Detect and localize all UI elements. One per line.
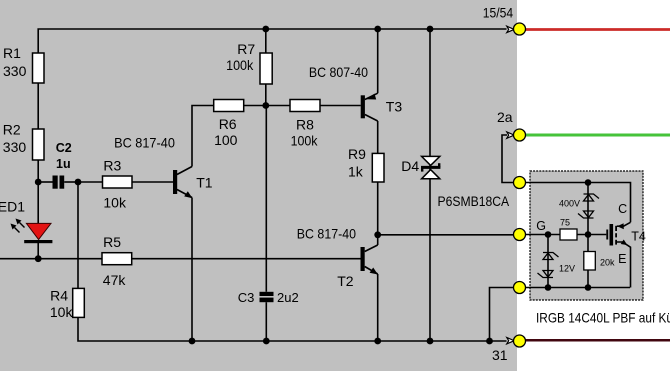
- schematic gray canvas: [0, 0, 517, 371]
- svg-text:C2: C2: [56, 141, 72, 155]
- wire R3 to T1 base: [132, 181, 173, 183]
- wire zener 12V column: [547, 235, 549, 288]
- transistor T3: [361, 93, 378, 121]
- svg-text:R5: R5: [103, 234, 121, 250]
- node top rail R7: [262, 26, 269, 33]
- wire T1 emitter down: [191, 198, 193, 342]
- svg-text:400V: 400V: [559, 199, 580, 209]
- svg-text:R9: R9: [348, 146, 366, 162]
- svg-text:75: 75: [560, 218, 570, 228]
- node bottom rail D4: [427, 338, 434, 345]
- resistor 20k: [584, 252, 596, 271]
- svg-text:IRGB 14C40L PBF auf Kü: IRGB 14C40L PBF auf Kü: [536, 309, 670, 325]
- wire node to C2 left plate: [38, 181, 52, 183]
- svg-text:R6: R6: [219, 116, 237, 132]
- pin arrow 15/54: [507, 26, 514, 32]
- svg-text:20k: 20k: [600, 258, 615, 268]
- svg-text:P6SMB18CA: P6SMB18CA: [438, 193, 510, 209]
- connector gate G: [514, 229, 526, 241]
- capacitor C2: [53, 176, 65, 189]
- svg-text:330: 330: [3, 63, 27, 79]
- resistor R3: [103, 176, 133, 188]
- wire 2a loop to module top connector: [502, 135, 514, 183]
- wire R7 bottom: [265, 84, 267, 106]
- node R9 T2: [374, 231, 381, 238]
- IGBT T4: [606, 223, 627, 245]
- wire module bottom rail: [526, 287, 631, 289]
- svg-text:330: 330: [3, 139, 27, 155]
- wire D4 column: [429, 29, 431, 341]
- svg-text:T3: T3: [386, 99, 403, 115]
- wire 75 resistor to gate: [577, 234, 606, 236]
- svg-text:2u2: 2u2: [277, 290, 299, 305]
- wire zener 400V column: [587, 183, 589, 235]
- wire R9 to node: [377, 182, 379, 235]
- svg-text:47k: 47k: [103, 272, 127, 288]
- svg-text:R7: R7: [237, 41, 255, 57]
- wire C3 to bottom rail: [265, 302, 267, 341]
- wire R8 to T3 base: [320, 105, 361, 107]
- pin arrow 31: [507, 338, 514, 344]
- node bottom rail C3: [263, 338, 270, 345]
- svg-text:T2: T2: [337, 273, 354, 289]
- zener diode 400V pair: [578, 194, 599, 218]
- svg-text:BC 817-40: BC 817-40: [297, 225, 356, 241]
- svg-text:BC 807-40: BC 807-40: [309, 64, 368, 80]
- svg-text:10k: 10k: [103, 195, 127, 211]
- wire red 15/54: [526, 28, 670, 31]
- module dashed box: [530, 171, 643, 300]
- connector module bottom: [514, 282, 526, 294]
- node bottom rail module: [486, 338, 493, 345]
- wire R6 to node: [244, 105, 266, 107]
- resistor R2: [33, 129, 45, 160]
- svg-text:2a: 2a: [497, 109, 513, 125]
- node top rail D4: [427, 26, 434, 33]
- wire LED1 cathode to node: [37, 243, 39, 259]
- wire module top rail: [526, 183, 631, 223]
- svg-text:100k: 100k: [291, 133, 319, 149]
- wire node to R3: [78, 181, 103, 183]
- svg-text:10k: 10k: [50, 304, 74, 320]
- svg-text:G: G: [536, 219, 546, 233]
- wire R7 top: [265, 29, 267, 53]
- svg-text:D4: D4: [401, 158, 419, 174]
- wire T4 collector link: [617, 222, 631, 226]
- node module bottom 20k: [585, 284, 592, 291]
- wire C2 right plate to node: [64, 181, 78, 183]
- svg-text:15/54: 15/54: [483, 5, 513, 21]
- LED LED1: [11, 219, 53, 244]
- wire T2 emitter down: [377, 274, 379, 341]
- resistor R8: [290, 100, 320, 112]
- wire node down to C3: [265, 106, 267, 292]
- wire R1-R2: [37, 83, 39, 129]
- node C2 right: [75, 179, 82, 186]
- wire R5 to T2 base: [132, 258, 361, 260]
- connector 2a: [514, 129, 526, 141]
- wire green 2a: [526, 134, 670, 137]
- resistor R7: [260, 53, 272, 84]
- node R6 R7 R8: [262, 102, 269, 109]
- wire R4 to bottom rail: [78, 317, 192, 341]
- svg-text:T4: T4: [631, 230, 646, 244]
- wire T3 collector to R9: [377, 121, 379, 153]
- svg-text:1u: 1u: [56, 157, 71, 171]
- wire top rail: [38, 29, 506, 53]
- wire R2 to node: [37, 160, 39, 182]
- transistor T1: [173, 167, 193, 199]
- wire module bottom connector to bottom rail: [490, 288, 514, 342]
- resistor R6: [214, 100, 244, 112]
- connector module top: [514, 177, 526, 189]
- wire bottom rail: [192, 340, 507, 342]
- node module gate: [585, 231, 592, 238]
- resistor R9: [372, 153, 384, 182]
- wire LED1 anode: [37, 182, 39, 224]
- svg-text:R1: R1: [3, 45, 21, 61]
- wire dark red 31: [526, 339, 670, 342]
- wire T3 emitter up: [377, 29, 379, 93]
- svg-text:C3: C3: [238, 290, 255, 305]
- wire module G input: [526, 234, 561, 236]
- node bottom rail T1: [189, 338, 196, 345]
- svg-text:R3: R3: [103, 157, 121, 173]
- node module bottom 12V: [545, 284, 552, 291]
- svg-text:LED1: LED1: [0, 199, 25, 215]
- zener diode 12V pair: [538, 253, 559, 278]
- node top rail T3: [374, 26, 381, 33]
- node LED1 cathode: [35, 255, 42, 262]
- connector 15/54: [514, 23, 526, 35]
- wire node to G connector: [378, 234, 514, 236]
- resistor R4: [73, 288, 85, 317]
- connector 31: [514, 335, 526, 347]
- svg-text:C: C: [618, 202, 627, 216]
- wire node to R8: [266, 105, 291, 107]
- resistor 75: [560, 229, 577, 240]
- wire 20k resistor column: [587, 235, 589, 288]
- pin arrow 2a: [507, 132, 514, 138]
- wire T1 collector up to R6: [192, 106, 214, 167]
- node C2 left: [35, 179, 42, 186]
- capacitor C3: [260, 292, 274, 302]
- diode D4: [421, 156, 440, 178]
- transistor T2: [361, 245, 378, 275]
- svg-text:E: E: [618, 252, 626, 266]
- svg-text:BC 817-40: BC 817-40: [114, 135, 175, 151]
- wire T4 emitter: [617, 242, 631, 288]
- resistor R5: [102, 253, 132, 265]
- resistor R1: [33, 53, 45, 83]
- node module top: [585, 179, 592, 186]
- node module 12V: [545, 231, 552, 238]
- svg-text:12V: 12V: [559, 264, 575, 274]
- node bottom rail T2: [374, 338, 381, 345]
- svg-text:R4: R4: [50, 288, 68, 304]
- svg-text:R2: R2: [3, 121, 21, 137]
- svg-text:R8: R8: [296, 116, 314, 132]
- wire T2 collector up: [377, 235, 379, 245]
- wire node down to R4: [77, 182, 79, 288]
- svg-text:100k: 100k: [226, 57, 254, 73]
- wire left rail to R5: [0, 258, 102, 260]
- svg-text:100: 100: [214, 132, 238, 148]
- svg-text:31: 31: [492, 347, 508, 363]
- svg-text:1k: 1k: [348, 163, 364, 179]
- svg-text:T1: T1: [196, 175, 213, 191]
